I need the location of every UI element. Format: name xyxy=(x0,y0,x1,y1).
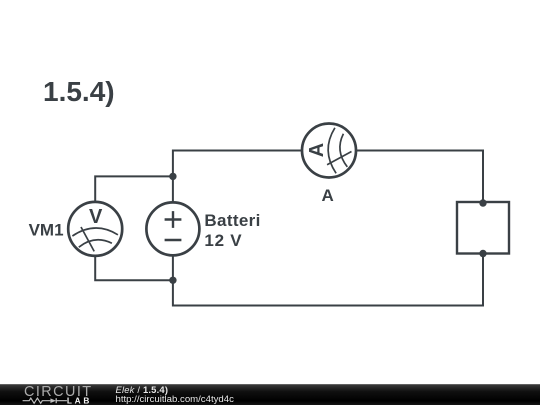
svg-text:LAB: LAB xyxy=(67,395,92,405)
svg-text:1.5.4): 1.5.4) xyxy=(43,76,115,107)
node junction top (battery/voltmeter) xyxy=(169,173,176,180)
wire resistor bottom to battery bottom xyxy=(173,254,483,306)
voltmeter VM1 xyxy=(68,202,122,256)
node junction bottom (battery/voltmeter) xyxy=(169,277,176,284)
svg-text:Batteri: Batteri xyxy=(204,211,260,230)
wire ammeter right to resistor top xyxy=(356,151,483,203)
svg-text:A: A xyxy=(306,143,328,157)
node resistor bottom terminal xyxy=(479,250,486,257)
svg-text:12 V: 12 V xyxy=(204,231,242,250)
wire voltmeter top branch xyxy=(95,176,173,202)
wire battery top to ammeter left xyxy=(173,151,302,203)
battery V1 xyxy=(146,202,199,255)
logo diode triangle xyxy=(50,398,56,403)
wire voltmeter bottom branch xyxy=(95,256,173,280)
ammeter AM1 xyxy=(302,124,356,178)
logo resistor-diode wire glyph xyxy=(23,398,67,403)
svg-text:V: V xyxy=(89,206,103,228)
svg-text:http://circuitlab.com/c4tyd4c: http://circuitlab.com/c4tyd4c xyxy=(116,394,235,405)
logo diode cathode bar xyxy=(55,398,57,403)
svg-text:VM1: VM1 xyxy=(29,221,64,240)
node resistor top terminal xyxy=(479,199,486,206)
svg-text:A: A xyxy=(321,186,333,205)
footer bar xyxy=(0,384,540,405)
resistor R1 (box) xyxy=(457,202,509,254)
